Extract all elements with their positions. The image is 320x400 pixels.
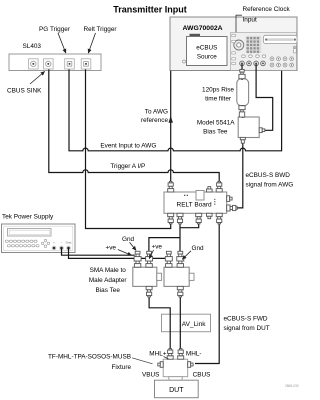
svg-text:MHL-: MHL- bbox=[186, 351, 202, 358]
svg-text:Input: Input bbox=[243, 16, 257, 23]
svg-text:CBUS: CBUS bbox=[193, 371, 211, 378]
svg-text:eCBUS-S BWD: eCBUS-S BWD bbox=[246, 172, 291, 179]
svg-text:signal from AWG: signal from AWG bbox=[246, 182, 294, 189]
svg-text:−: − bbox=[61, 241, 63, 245]
svg-text:CBUS SINK: CBUS SINK bbox=[7, 88, 42, 95]
svg-text:+ve: +ve bbox=[106, 244, 117, 251]
svg-text:Tek Power Supply: Tek Power Supply bbox=[2, 213, 54, 220]
svg-text:SL403: SL403 bbox=[23, 43, 42, 50]
svg-text:eCBUS: eCBUS bbox=[196, 45, 217, 52]
svg-text:+ve: +ve bbox=[152, 244, 163, 251]
svg-text:VBUS: VBUS bbox=[142, 371, 159, 378]
svg-text:Event Input to AWG: Event Input to AWG bbox=[100, 143, 156, 150]
svg-text:RELT Board: RELT Board bbox=[177, 202, 213, 209]
svg-text:eCBUS-S FWD: eCBUS-S FWD bbox=[224, 315, 268, 322]
svg-text:Gnd: Gnd bbox=[122, 236, 135, 243]
svg-text:Trigger A I/P: Trigger A I/P bbox=[110, 163, 145, 170]
svg-text:To AWG: To AWG bbox=[145, 109, 168, 116]
svg-text:Gnd: Gnd bbox=[66, 241, 72, 245]
svg-text:Relt Trigger: Relt Trigger bbox=[83, 26, 117, 33]
svg-text:2865-033: 2865-033 bbox=[285, 384, 299, 388]
svg-text:Model 5541A: Model 5541A bbox=[197, 119, 235, 126]
svg-text:Male Adapter: Male Adapter bbox=[89, 277, 128, 284]
svg-text:Bias Tee: Bias Tee bbox=[203, 128, 228, 135]
svg-text:PG Trigger: PG Trigger bbox=[39, 26, 71, 33]
svg-text:Source: Source bbox=[197, 54, 217, 61]
svg-text:DUT: DUT bbox=[169, 387, 184, 394]
svg-text:Reference Clock: Reference Clock bbox=[243, 6, 291, 13]
svg-text:TF-MHL-TPA-SOSOS-MUSB: TF-MHL-TPA-SOSOS-MUSB bbox=[48, 353, 131, 360]
svg-text:AWG70002A: AWG70002A bbox=[183, 25, 223, 32]
svg-text:signal from DUT: signal from DUT bbox=[224, 325, 270, 332]
svg-text:reference: reference bbox=[141, 117, 168, 124]
svg-text:Transmitter Input: Transmitter Input bbox=[113, 4, 187, 14]
svg-text:Fixture: Fixture bbox=[111, 364, 131, 371]
svg-text:+: + bbox=[53, 241, 55, 245]
svg-text:Gnd: Gnd bbox=[192, 245, 205, 252]
svg-text:SMA Male to: SMA Male to bbox=[90, 267, 127, 274]
svg-text:120ps Rise: 120ps Rise bbox=[202, 87, 234, 94]
svg-text:Bias Tee: Bias Tee bbox=[95, 287, 120, 294]
svg-text:AV_Link: AV_Link bbox=[182, 321, 206, 328]
svg-text:time filter: time filter bbox=[205, 96, 232, 103]
